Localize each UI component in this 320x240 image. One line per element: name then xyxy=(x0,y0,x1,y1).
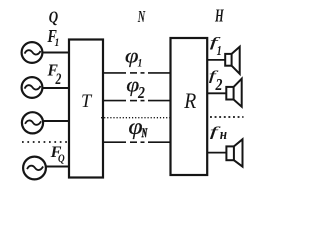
svg-text:н: н xyxy=(220,127,228,143)
block R xyxy=(171,38,208,175)
generator G2 (AC source) xyxy=(22,77,43,98)
svg-text:H: H xyxy=(214,7,224,26)
label phi1 xyxy=(125,45,143,70)
svg-text:N: N xyxy=(137,8,146,26)
wire G3 to T xyxy=(43,120,69,122)
generator G3 sine symbol xyxy=(25,120,41,124)
svg-text:1: 1 xyxy=(55,36,60,49)
generator G2 sine symbol xyxy=(25,85,41,89)
svg-text:2: 2 xyxy=(55,70,62,87)
wire R to speaker LSn xyxy=(207,152,226,154)
svg-text:R: R xyxy=(183,88,196,113)
generator GQ (AC source) xyxy=(23,157,46,180)
block T xyxy=(69,40,103,178)
svg-text:φ: φ xyxy=(126,73,139,96)
svg-text:Q: Q xyxy=(49,9,58,27)
speaker LS2 xyxy=(226,79,241,107)
label f2 xyxy=(209,68,223,94)
ellipsis dotted line (middle) xyxy=(101,117,171,119)
wire R to speaker LS1 xyxy=(207,59,225,61)
wire phi1 (dashed channel line) xyxy=(102,72,171,74)
speaker LSn xyxy=(226,139,242,166)
label fn xyxy=(210,124,228,142)
svg-text:1: 1 xyxy=(138,58,143,70)
wire phi2 (dashed channel line) xyxy=(102,100,171,102)
svg-text:2: 2 xyxy=(215,76,223,95)
wire G2 to T xyxy=(43,87,70,89)
label F1 xyxy=(47,26,60,49)
svg-text:T: T xyxy=(81,91,93,113)
generator G1 sine symbol xyxy=(25,50,41,54)
svg-text:2: 2 xyxy=(137,84,145,103)
ellipsis dotted line (left) xyxy=(22,141,67,143)
svg-text:φ: φ xyxy=(125,45,139,67)
label phiN xyxy=(128,114,147,141)
wire G1 to T xyxy=(43,52,70,54)
generator G1 (AC source) xyxy=(22,42,43,63)
generator G3 (AC source) xyxy=(22,112,43,133)
label FQ xyxy=(50,143,66,165)
svg-text:N: N xyxy=(141,128,148,141)
wire phiN (dashed channel line) xyxy=(102,141,171,143)
wire GQ to T xyxy=(46,166,69,168)
generator GQ sine symbol xyxy=(27,166,43,170)
label phi2 xyxy=(126,73,145,103)
label F2 xyxy=(47,60,62,87)
speaker LS1 xyxy=(225,47,240,74)
svg-text:φ: φ xyxy=(128,114,142,140)
wire R to speaker LS2 xyxy=(207,92,226,94)
svg-text:Q: Q xyxy=(58,153,65,165)
label f1 xyxy=(210,34,222,59)
svg-text:1: 1 xyxy=(217,43,222,59)
ellipsis dotted line (right) xyxy=(210,116,244,118)
